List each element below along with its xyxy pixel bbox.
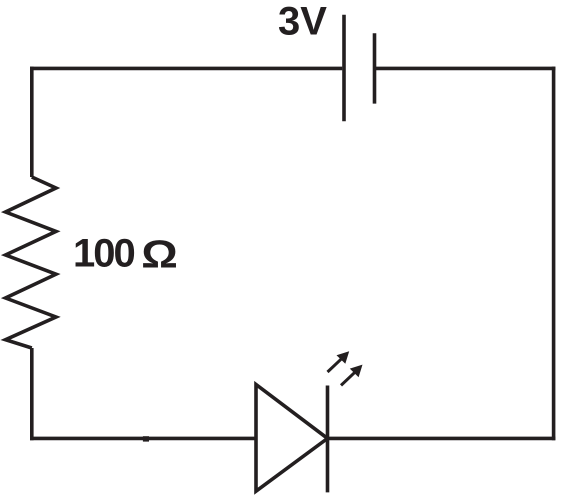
resistor R (100 ohm) zigzag xyxy=(6,177,57,348)
battery plate short (negative) xyxy=(373,33,377,103)
LED light arrow 2 head xyxy=(350,365,363,378)
LED light arrow 1 shaft xyxy=(328,358,343,372)
wire top-right horizontal (battery - plate to right rail) xyxy=(375,67,556,71)
wire bottom-left horizontal (to LED anode) xyxy=(30,437,256,441)
wire bottom-right horizontal (LED cathode to right rail) xyxy=(328,437,556,441)
LED cathode bar xyxy=(326,386,330,493)
wire right rail xyxy=(552,67,556,441)
wire left rail lower segment xyxy=(30,348,34,440)
wire top-left horizontal (left rail to battery + plate) xyxy=(30,67,342,71)
wire left rail upper segment xyxy=(30,67,34,177)
svg-text:100: 100 xyxy=(73,232,134,276)
svg-text:3V: 3V xyxy=(278,0,327,44)
junction tick on bottom wire xyxy=(143,436,149,441)
LED D1 triangle (anode) xyxy=(256,385,328,492)
LED light arrow 2 shaft xyxy=(341,372,356,386)
battery plate long (positive) xyxy=(342,15,346,121)
LED light arrow 1 head xyxy=(337,351,350,364)
svg-text:Ω: Ω xyxy=(141,233,178,276)
